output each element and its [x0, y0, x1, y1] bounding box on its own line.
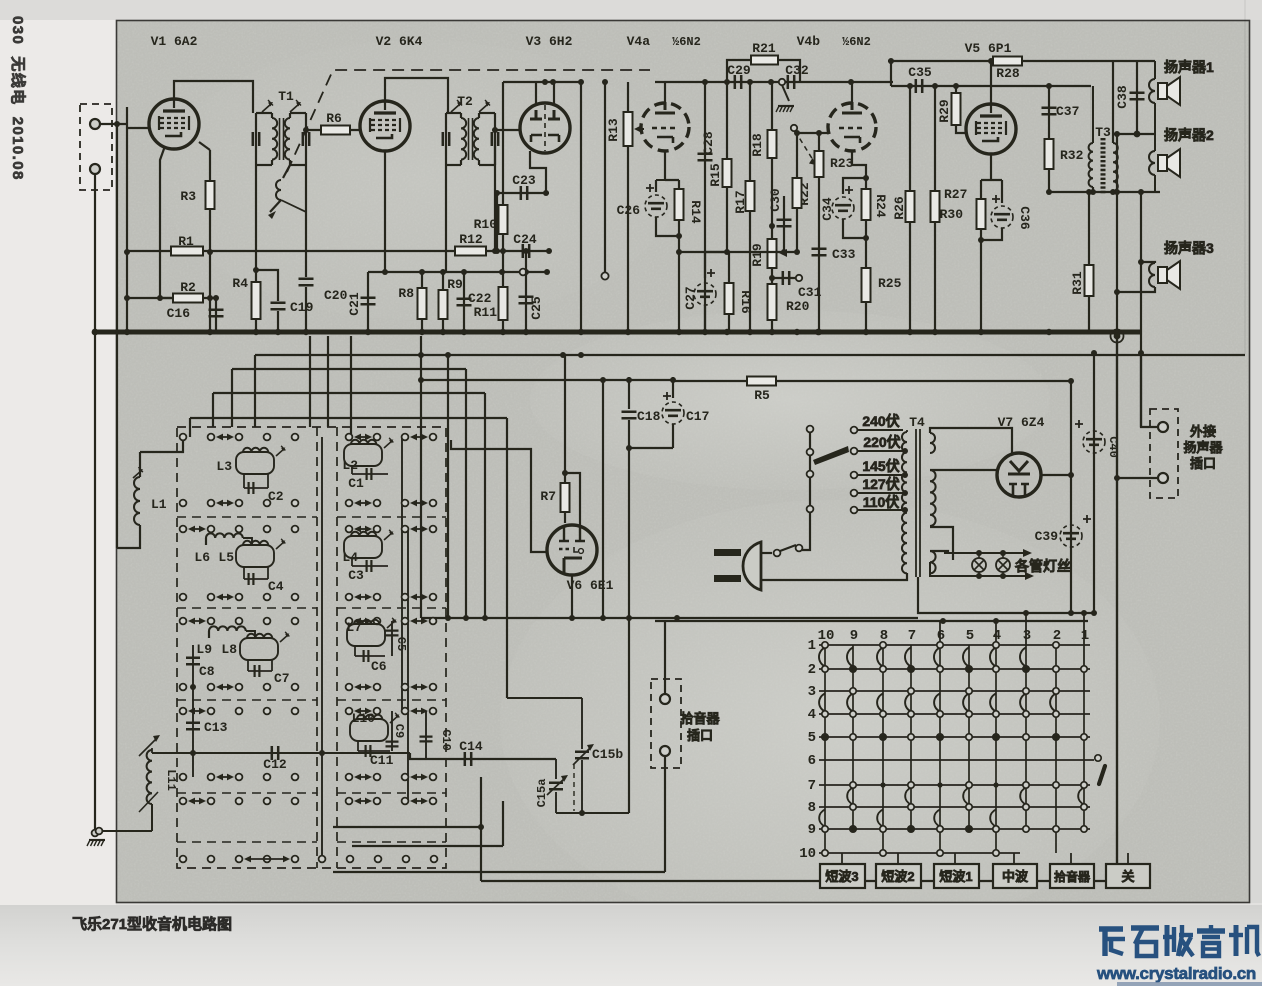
oscillator coil L11 trimmer — [139, 737, 158, 756]
wire grid row V4b — [797, 132, 828, 134]
resistor R6 — [321, 126, 350, 135]
svg-text:C23: C23 — [512, 173, 536, 188]
switch contact arrows — [356, 776, 370, 778]
terminal — [346, 526, 353, 533]
band label shortwave2 — [876, 864, 921, 888]
svg-text:R32: R32 — [1060, 148, 1084, 163]
tap selector terminals — [807, 426, 814, 433]
wire matrix feeds — [939, 621, 941, 645]
wire ext speaker top feed — [1244, 0, 1246, 354]
svg-text:V7 6Z4: V7 6Z4 — [998, 415, 1045, 430]
switch contact arrows — [218, 436, 232, 438]
wire anode column left — [502, 82, 504, 193]
svg-text:220伏: 220伏 — [863, 434, 900, 450]
svg-text:C28: C28 — [701, 131, 716, 155]
terminal — [430, 774, 437, 781]
wire right box link column b — [407, 529, 409, 801]
ground bus — [93, 330, 1140, 335]
svg-text:R24: R24 — [873, 194, 888, 218]
switch contacts row7-8 — [847, 788, 853, 805]
resistor R12 — [455, 247, 486, 256]
wire T4 bottom row — [918, 577, 1096, 613]
terminal — [402, 618, 409, 625]
svg-text:C9: C9 — [392, 724, 406, 738]
resistor R3 — [209, 150, 211, 332]
svg-text:R13: R13 — [606, 118, 621, 142]
switch contact arrows — [356, 528, 370, 530]
terminal — [208, 594, 215, 601]
svg-text:L3: L3 — [216, 459, 232, 474]
svg-text:短波2: 短波2 — [881, 869, 914, 884]
wire B column to tuning — [628, 618, 630, 813]
T3 secondary coil — [1092, 86, 1094, 143]
pickup terminal top — [660, 694, 670, 704]
svg-text:V3 6H2: V3 6H2 — [526, 34, 573, 49]
resistor R25 — [865, 220, 867, 332]
terminal — [346, 798, 353, 805]
switch contact arrows — [412, 800, 426, 802]
T3 core — [1101, 138, 1106, 194]
capacitor C23 — [521, 186, 527, 200]
svg-text:R21: R21 — [752, 41, 776, 56]
wire T1 left column down — [255, 165, 257, 282]
wire V2 cathode — [384, 151, 386, 272]
svg-text:L6: L6 — [194, 550, 210, 565]
terminal — [292, 500, 299, 507]
svg-text:9: 9 — [808, 822, 816, 838]
wire B plus distribution row — [421, 379, 673, 381]
terminal — [430, 798, 437, 805]
resistor R31 — [1088, 192, 1090, 332]
tap terminal 110 — [851, 507, 858, 514]
capacitor C20 — [299, 279, 314, 285]
wire B plus column down — [628, 448, 630, 618]
svg-text:www.crystalradio.cn: www.crystalradio.cn — [1096, 964, 1256, 983]
capacitor C7 — [248, 660, 272, 671]
svg-text:V4a: V4a — [627, 34, 651, 49]
wire grid V2 — [306, 129, 360, 131]
external speaker terminal top — [1158, 422, 1168, 432]
terminal — [292, 618, 299, 625]
switch contact arrows — [356, 502, 370, 504]
svg-text:5: 5 — [808, 730, 816, 746]
switch contact arrows — [412, 620, 426, 622]
svg-text:030 无线电 2010.08: 030 无线电 2010.08 — [9, 16, 27, 181]
junction circled dot — [1111, 330, 1124, 343]
wire down column f — [602, 380, 604, 618]
coil box outer dashed frame — [177, 427, 446, 868]
resistor R10 — [502, 193, 504, 251]
tap terminal 127 — [851, 490, 858, 497]
terminal — [208, 708, 215, 715]
terminal — [208, 618, 215, 625]
resistor R9 — [442, 272, 444, 332]
terminal — [430, 594, 437, 601]
terminal — [208, 798, 215, 805]
svg-text:C30: C30 — [768, 188, 783, 212]
wire left ground drop — [94, 335, 96, 831]
T4 HV secondary top — [930, 433, 935, 453]
svg-text:C1: C1 — [348, 476, 364, 491]
svg-text:L1: L1 — [151, 497, 167, 512]
svg-text:C4: C4 — [268, 579, 284, 594]
AVC dashed line — [287, 70, 650, 172]
capacitor C24 — [523, 244, 529, 258]
resistor R24 — [862, 189, 871, 220]
wire eye target feed — [565, 473, 580, 525]
switch contact arrows — [412, 502, 426, 504]
wire V4a cathode — [656, 152, 679, 192]
svg-text:R30: R30 — [940, 207, 964, 222]
wire ext feed drop — [1140, 192, 1142, 427]
svg-text:C7: C7 — [274, 671, 290, 686]
terminal — [374, 684, 381, 691]
switch contacts row3-4 — [819, 694, 825, 712]
svg-text:R15: R15 — [708, 163, 723, 187]
terminal — [264, 708, 271, 715]
switch contact arrows — [356, 686, 370, 688]
terminal — [236, 684, 243, 691]
wire T1 right column down — [305, 165, 307, 277]
wire V6 cathode — [571, 575, 573, 618]
svg-text:8: 8 — [808, 800, 816, 816]
resistor R27 — [934, 86, 936, 332]
terminal — [402, 684, 409, 691]
switch contact arrows — [356, 620, 370, 622]
svg-text:C19: C19 — [290, 300, 314, 315]
wire HV bottom — [930, 527, 953, 560]
capacitor C26 electrolytic — [648, 203, 664, 209]
T1 feedback coil — [283, 165, 290, 178]
terminal — [208, 500, 215, 507]
svg-text:L11: L11 — [164, 769, 178, 791]
svg-text:T3: T3 — [1095, 125, 1111, 140]
svg-text:1: 1 — [1081, 628, 1089, 644]
wire speaker return drop — [1116, 134, 1118, 881]
T2 core — [468, 118, 470, 160]
wire V1 cathode column — [160, 146, 175, 298]
resistor R17 — [749, 82, 751, 332]
wire channel column — [321, 437, 323, 859]
wire speaker return drop — [1116, 336, 1118, 881]
wire box drop a — [309, 336, 311, 427]
T4 filament winding — [930, 551, 936, 573]
svg-text:C33: C33 — [832, 247, 856, 262]
svg-text:V2 6K4: V2 6K4 — [376, 34, 423, 49]
terminal — [402, 798, 409, 805]
terminal — [430, 708, 437, 715]
wire long return row — [481, 880, 1117, 882]
svg-text:C17: C17 — [686, 409, 709, 424]
wire return riser a — [480, 777, 482, 881]
wire return row short2 — [352, 845, 503, 847]
wire V4b cathode to R24 — [852, 152, 866, 189]
svg-text:拾音器: 拾音器 — [680, 711, 720, 726]
tube V1 6A2 — [149, 99, 199, 149]
capacitor C37 — [1048, 86, 1050, 139]
coil L2 — [344, 444, 382, 466]
svg-text:L5: L5 — [218, 550, 234, 565]
terminal — [374, 708, 381, 715]
svg-text:飞乐271型收音机电路图: 飞乐271型收音机电路图 — [72, 915, 232, 933]
terminal — [292, 798, 299, 805]
terminal — [374, 526, 381, 533]
capacitor C8 — [192, 645, 194, 777]
svg-text:9: 9 — [850, 628, 858, 644]
terminal — [236, 434, 243, 441]
wire hum row — [679, 251, 797, 253]
terminal — [402, 500, 409, 507]
coil box partition — [177, 607, 317, 609]
switch contact arrows — [190, 800, 204, 802]
terminal — [430, 526, 437, 533]
speaker 2 — [1154, 134, 1156, 151]
wire R28 plate row — [888, 60, 1022, 62]
capacitor C22 — [463, 272, 465, 332]
T1 secondary coil — [289, 113, 291, 118]
wire V3 anode loop — [503, 82, 581, 105]
tap terminal 145 — [851, 472, 858, 479]
svg-text:C37: C37 — [1056, 104, 1079, 119]
terminal — [264, 798, 271, 805]
svg-text:3: 3 — [1023, 628, 1031, 644]
bottom terminal row — [180, 856, 187, 863]
svg-text:中波: 中波 — [1002, 869, 1029, 884]
resistor R4 — [252, 282, 261, 319]
svg-text:C18: C18 — [637, 409, 661, 424]
band box stubs — [841, 853, 843, 864]
svg-text:R20: R20 — [786, 299, 810, 314]
terminal — [374, 434, 381, 441]
antenna coil L1 — [139, 452, 141, 477]
resistor R21 loop — [727, 60, 800, 82]
resistor R26 — [909, 86, 911, 332]
svg-text:240伏: 240伏 — [862, 413, 899, 429]
coil box partition — [177, 841, 317, 843]
wire heater row — [421, 617, 677, 619]
wire heater feed long row — [677, 617, 918, 619]
gang link dashed — [573, 764, 575, 811]
potentiometer R13 — [627, 82, 629, 332]
switch contact arrows — [356, 436, 370, 438]
svg-text:R14: R14 — [688, 200, 703, 224]
switch contact arrows — [190, 710, 204, 712]
antenna coil L1 trimmer — [133, 471, 141, 478]
wire V2 anode loop — [385, 78, 448, 113]
resistor R22 — [796, 133, 798, 252]
wire C35 row — [891, 85, 1091, 87]
terminal — [180, 708, 187, 715]
capacitor C18 — [628, 377, 630, 409]
terminal — [180, 774, 187, 781]
pilot lamp 2 — [996, 558, 1010, 572]
capacitor C13 — [186, 723, 200, 729]
antenna terminal bottom — [90, 164, 100, 174]
T4 primary winding — [902, 432, 907, 573]
top coupling row — [655, 81, 893, 83]
tube V6 6E1 — [547, 525, 597, 575]
resistor R28 — [993, 57, 1022, 66]
bottom row contact arrows — [246, 858, 288, 860]
screen row terminal — [520, 269, 527, 276]
wire V1 grid — [127, 107, 149, 332]
terminal — [264, 774, 271, 781]
terminal column — [604, 82, 606, 272]
capacitor C21 — [367, 272, 369, 332]
svg-text:C36: C36 — [1017, 206, 1032, 230]
terminal — [292, 434, 299, 441]
switch contact arrows — [412, 436, 426, 438]
capacitor C28 — [704, 82, 706, 332]
terminal — [208, 774, 215, 781]
switch contact arrows — [356, 800, 370, 802]
wire box drop c — [350, 336, 352, 437]
svg-text:145伏: 145伏 — [862, 458, 899, 474]
svg-text:V5 6P1: V5 6P1 — [965, 41, 1012, 56]
terminal — [236, 500, 243, 507]
speaker 3 — [1141, 262, 1155, 263]
coil box partition — [177, 699, 317, 701]
terminal — [402, 708, 409, 715]
wire filament row bottom — [930, 562, 1030, 576]
wire down column a — [420, 336, 422, 618]
svg-text:3: 3 — [808, 684, 816, 700]
wire down column e — [506, 418, 508, 698]
band switch matrix columns — [824, 645, 826, 853]
T2 primary coil — [460, 113, 462, 118]
svg-text:外接: 外接 — [1189, 424, 1216, 439]
resistor R1 — [171, 247, 203, 256]
terminal — [208, 526, 215, 533]
svg-text:7: 7 — [908, 628, 916, 644]
terminal — [346, 774, 353, 781]
terminal — [292, 708, 299, 715]
svg-text:C29: C29 — [727, 63, 751, 78]
ground symbol — [89, 839, 105, 841]
svg-text:C26: C26 — [617, 203, 641, 218]
wire V1 anode loop — [174, 81, 253, 113]
svg-text:R19: R19 — [750, 243, 765, 267]
wire diode row — [497, 192, 549, 194]
svg-text:R3: R3 — [180, 189, 196, 204]
coil L6 — [205, 538, 207, 545]
capacitor C39 electrolytic — [1070, 381, 1072, 613]
switch contact arrows — [412, 596, 426, 598]
svg-text:各管灯丝: 各管灯丝 — [1014, 558, 1071, 574]
wire V5 cathode — [981, 154, 1002, 203]
svg-text:7: 7 — [808, 778, 816, 794]
svg-text:C22: C22 — [468, 291, 492, 306]
switch contact arrows — [412, 776, 426, 778]
svg-text:C11: C11 — [370, 753, 394, 768]
svg-text:R4: R4 — [232, 276, 248, 291]
terminal — [180, 594, 187, 601]
svg-text:R9: R9 — [447, 277, 463, 292]
terminal — [180, 526, 187, 533]
terminal — [430, 434, 437, 441]
wire pickup top feed — [664, 621, 666, 694]
terminal — [374, 500, 381, 507]
resistor R32 — [1045, 139, 1054, 169]
terminal — [346, 434, 353, 441]
wire feed row B — [232, 368, 466, 370]
svg-text:R18: R18 — [750, 133, 765, 157]
svg-text:C39: C39 — [1035, 529, 1059, 544]
mains switch lever — [780, 545, 796, 551]
wire V4b out column — [890, 61, 892, 86]
wire V4a anode to top row — [664, 82, 666, 102]
terminal — [292, 526, 299, 533]
tap selector arm — [813, 446, 849, 465]
capacitor C14 — [465, 752, 471, 766]
terminal — [264, 500, 271, 507]
tube V2 6K4 — [360, 101, 410, 151]
terminal — [346, 618, 353, 625]
wire feed row A — [255, 354, 1245, 356]
mains plug — [743, 542, 761, 590]
resistor R7 feed — [564, 355, 566, 483]
terminal — [292, 594, 299, 601]
capacitor C31 — [772, 277, 797, 279]
T1 primary tuning capacitor — [255, 113, 257, 165]
svg-text:扬声器2: 扬声器2 — [1164, 127, 1214, 143]
resistor R7 — [561, 483, 570, 512]
T1 trimmer arrows — [262, 104, 271, 112]
svg-text:短波3: 短波3 — [825, 869, 858, 884]
matrix circles — [822, 642, 828, 648]
wire antenna top to grid column — [100, 123, 127, 125]
wire down column b — [447, 355, 449, 618]
wire speaker top row — [1022, 60, 1155, 62]
wire output bottom row — [1071, 191, 1160, 193]
T2 secondary coil — [478, 113, 480, 118]
terminal — [374, 618, 381, 625]
svg-text:V4b: V4b — [797, 34, 821, 49]
terminal — [346, 594, 353, 601]
band label shortwave1 — [934, 864, 979, 888]
svg-text:L8: L8 — [221, 642, 237, 657]
T2 secondary tuning capacitor — [494, 113, 496, 165]
svg-text:R6: R6 — [326, 111, 342, 126]
capacitor C17 electrolytic — [672, 377, 674, 398]
switch contact arrows — [356, 596, 370, 598]
terminal — [292, 684, 299, 691]
terminal — [236, 774, 243, 781]
resistor R30 — [977, 199, 986, 229]
watermark crystalradio — [1099, 925, 1259, 956]
wire antenna bottom down to ground bus — [94, 174, 96, 332]
svg-text:C34: C34 — [820, 197, 835, 221]
svg-text:C14: C14 — [459, 739, 483, 754]
pickup jack dashed box — [651, 679, 681, 768]
resistor R11 — [502, 251, 504, 332]
wire return row short — [333, 826, 481, 828]
svg-text:R11: R11 — [474, 305, 498, 320]
wire screen row — [368, 271, 549, 273]
resistor R15 — [726, 82, 728, 252]
svg-text:127伏: 127伏 — [862, 476, 899, 492]
wire tuning bottom row — [556, 812, 629, 814]
svg-text:R27: R27 — [944, 187, 967, 202]
switch contact arrows — [190, 620, 204, 622]
svg-text:C38: C38 — [1115, 85, 1130, 109]
R13 wiper arrow — [634, 125, 642, 133]
coil box partition — [177, 516, 317, 518]
svg-text:扬声器: 扬声器 — [1183, 440, 1223, 455]
svg-text:R5: R5 — [754, 388, 770, 403]
oscillator coil L11 — [151, 748, 153, 753]
svg-text:扬声器1: 扬声器1 — [1164, 59, 1214, 75]
